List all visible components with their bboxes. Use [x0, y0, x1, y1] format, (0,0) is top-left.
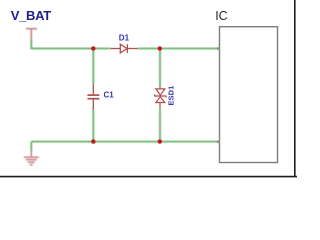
wire ESD1 branch lower	[159, 108, 161, 142]
wire ESD1 branch upper	[159, 49, 161, 87]
junction bottom ESD1	[158, 139, 162, 143]
IC U1 body	[220, 27, 278, 163]
junction bottom C1	[91, 139, 95, 143]
wire ground drop	[30, 142, 32, 151]
wire top rail right segment	[138, 48, 219, 50]
wire C1 branch upper	[92, 49, 94, 85]
TVS diode ESD1	[155, 86, 167, 108]
svg-text:ESD1: ESD1	[167, 85, 176, 106]
pin end bottom	[217, 140, 220, 143]
diode D1	[111, 44, 138, 53]
svg-text:IC: IC	[215, 9, 228, 23]
sheet border right	[294, 0, 296, 177]
junction top C1	[91, 46, 95, 50]
svg-text:V_BAT: V_BAT	[11, 8, 52, 23]
wire bottom rail	[31, 141, 218, 143]
pin end top	[217, 47, 220, 50]
ground	[24, 150, 39, 165]
wire top rail left segment	[31, 40, 110, 49]
power port V_BAT	[26, 29, 37, 40]
junction top ESD1	[158, 46, 162, 50]
sheet border bottom	[0, 176, 297, 178]
svg-text:D1: D1	[119, 33, 130, 42]
wire C1 branch lower	[92, 110, 94, 142]
svg-text:C1: C1	[104, 90, 115, 99]
capacitor C1	[87, 84, 99, 110]
